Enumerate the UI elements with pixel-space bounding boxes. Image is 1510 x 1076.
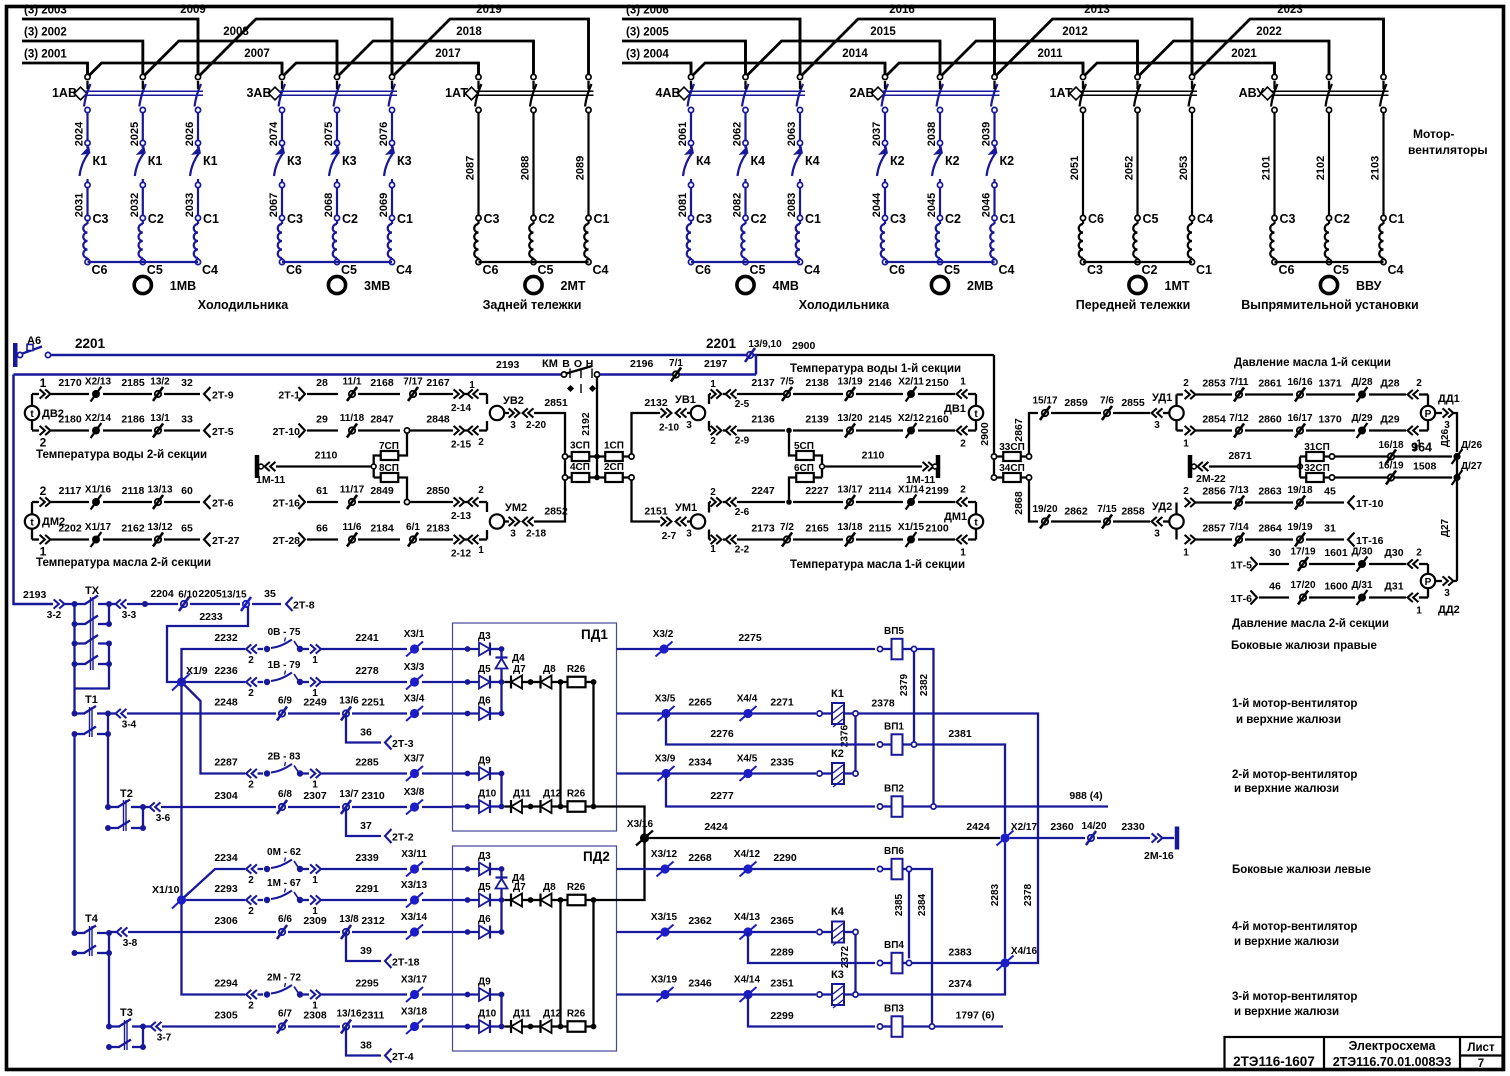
terminal — [476, 107, 481, 112]
svg-text:Д/31: Д/31 — [1351, 580, 1372, 591]
wire 2372 — [854, 935, 856, 992]
svg-text:2381: 2381 — [948, 728, 972, 740]
wire 2045 — [939, 188, 941, 216]
contact 7/6 — [1104, 410, 1110, 416]
svg-text:2081: 2081 — [677, 193, 689, 217]
svg-text:13/7: 13/7 — [339, 789, 359, 800]
wire — [799, 81, 801, 89]
svg-text:Д/29: Д/29 — [1351, 413, 1372, 424]
terminal — [586, 107, 591, 112]
bus 2007 — [88, 63, 283, 77]
svg-text:2: 2 — [710, 487, 716, 498]
svg-text:К1: К1 — [203, 154, 218, 168]
terminal — [1135, 107, 1140, 112]
diode Д3 — [465, 646, 471, 652]
svg-text:Д10: Д10 — [478, 1009, 497, 1020]
svg-text:4МВ: 4МВ — [773, 279, 799, 293]
wire 2276 — [666, 714, 875, 745]
svg-text:2023: 2023 — [1277, 4, 1303, 16]
svg-text:988 (4): 988 (4) — [1069, 790, 1102, 802]
svg-text:2311: 2311 — [362, 1010, 385, 1022]
wire 2162 — [103, 538, 152, 540]
svg-text:2М-16: 2М-16 — [1144, 850, 1174, 862]
wire 2136 — [737, 429, 785, 431]
svg-text:2: 2 — [248, 780, 254, 791]
wire 2293 — [186, 899, 245, 901]
diode Д4 — [500, 869, 502, 877]
wire 65 — [164, 538, 200, 540]
svg-text:К3: К3 — [342, 154, 357, 168]
svg-text:2379: 2379 — [899, 673, 910, 696]
svg-text:С1: С1 — [1389, 212, 1405, 226]
svg-text:0М - 62: 0М - 62 — [267, 847, 301, 858]
wire 2285 — [322, 772, 408, 774]
terminal — [140, 107, 145, 112]
panel ПД2 — [453, 846, 617, 1051]
wire 2083 — [799, 188, 801, 216]
svg-text:С6: С6 — [695, 263, 711, 277]
svg-text:2110: 2110 — [315, 450, 338, 462]
svg-text:3-7: 3-7 — [157, 1033, 172, 1044]
wire tap phase 3 — [197, 19, 200, 74]
wire 964 — [1334, 455, 1452, 457]
svg-text:1МТ: 1МТ — [1165, 279, 1190, 293]
junction Д/27 — [1453, 474, 1460, 481]
svg-text:3-6: 3-6 — [156, 813, 171, 824]
diode Д6 — [465, 929, 471, 935]
bus (3) 2006 — [622, 19, 800, 74]
svg-text:2: 2 — [1416, 378, 1422, 389]
svg-text:2160: 2160 — [925, 414, 949, 426]
wire 2132 — [632, 413, 661, 454]
wire tap phase 2 — [532, 41, 535, 74]
svg-text:С1: С1 — [594, 212, 610, 226]
svg-text:2068: 2068 — [323, 193, 335, 217]
wire 2232 — [182, 649, 246, 682]
wire — [282, 261, 392, 263]
svg-text:С4: С4 — [202, 263, 218, 277]
svg-text:3СП: 3СП — [570, 441, 590, 452]
contact 13/9,10 — [747, 352, 753, 358]
svg-text:С3: С3 — [484, 212, 500, 226]
svg-text:2022: 2022 — [1256, 26, 1282, 38]
svg-text:15/17: 15/17 — [1032, 396, 1057, 407]
wire 2074 — [281, 113, 283, 141]
stator winding — [532, 221, 534, 224]
svg-text:13/12: 13/12 — [147, 522, 172, 533]
stator winding — [884, 221, 886, 224]
connector 2-13 — [454, 497, 459, 506]
diode Д7 — [504, 899, 511, 901]
svg-text:2061: 2061 — [677, 122, 689, 146]
diode Д4 — [500, 649, 502, 657]
svg-text:2308: 2308 — [303, 1010, 327, 1022]
wire 2381 — [917, 745, 1005, 834]
wire 2275 — [617, 648, 876, 650]
contact Д/31 — [1358, 594, 1366, 602]
bus 2021 — [1083, 63, 1275, 77]
wire tap phase 1 — [1273, 63, 1276, 74]
contact 16/18 — [1388, 453, 1394, 459]
svg-text:Лист: Лист — [1467, 1042, 1495, 1054]
motor terminal С3 — [85, 215, 90, 220]
connector Х3/18 — [410, 1022, 419, 1031]
wire 2339 — [322, 868, 408, 870]
stator winding — [1082, 221, 1084, 224]
stator winding — [799, 221, 801, 224]
svg-text:3-й мотор-вентилятор: 3-й мотор-вентилятор — [1232, 991, 1357, 1003]
svg-text:6/9: 6/9 — [278, 696, 292, 707]
svg-text:2204: 2204 — [150, 588, 174, 600]
svg-text:2287: 2287 — [214, 757, 238, 769]
wire — [1369, 596, 1406, 598]
motor terminal С3 — [1272, 215, 1277, 220]
svg-text:2241: 2241 — [355, 632, 379, 644]
wire — [1082, 81, 1084, 89]
junction Д/26 — [1453, 453, 1460, 460]
wire 2088 — [532, 113, 534, 216]
wire 2168 — [358, 393, 400, 395]
svg-text:К4: К4 — [805, 154, 820, 168]
svg-text:вентиляторы: вентиляторы — [1408, 143, 1488, 157]
svg-text:С6: С6 — [1088, 212, 1104, 226]
wire — [477, 81, 479, 89]
svg-text:2024: 2024 — [74, 121, 86, 146]
svg-text:УВ2: УВ2 — [503, 395, 524, 407]
wire tap phase 1 — [281, 63, 284, 74]
svg-text:2248: 2248 — [214, 697, 238, 709]
wire tap phase 2 — [142, 41, 145, 74]
svg-text:2: 2 — [1416, 548, 1422, 559]
svg-text:19/20: 19/20 — [1032, 504, 1057, 515]
wire 2308 — [288, 1025, 340, 1027]
svg-text:С2: С2 — [1142, 263, 1158, 277]
wire 2053 — [1191, 113, 1193, 216]
svg-text:2900: 2900 — [792, 340, 816, 352]
diode Д9 — [465, 771, 471, 777]
svg-text:2184: 2184 — [370, 523, 394, 535]
terminal — [1381, 107, 1386, 112]
svg-text:К2: К2 — [831, 748, 844, 760]
svg-text:3: 3 — [1154, 529, 1160, 540]
svg-text:2855: 2855 — [1121, 397, 1145, 409]
svg-text:7: 7 — [1478, 1058, 1484, 1070]
svg-text:ДД2: ДД2 — [1438, 604, 1460, 616]
contactor К2 — [939, 146, 941, 148]
svg-text:4-й мотор-вентилятор: 4-й мотор-вентилятор — [1232, 921, 1357, 933]
svg-text:Д26: Д26 — [1440, 428, 1451, 447]
pressure relay ДД2 — [1427, 564, 1429, 574]
wire 2110 — [824, 465, 922, 467]
svg-text:2137: 2137 — [751, 377, 775, 389]
svg-text:2193: 2193 — [23, 589, 47, 601]
motor terminal С3 — [279, 215, 284, 220]
svg-text:7/5: 7/5 — [780, 377, 794, 388]
wire 31 — [1306, 538, 1344, 540]
svg-text:3: 3 — [686, 529, 692, 540]
svg-text:2852: 2852 — [544, 506, 568, 518]
wire 2870 — [1334, 476, 1452, 478]
connector Х4/13 — [743, 927, 752, 936]
contact Х1/17 — [92, 536, 100, 544]
terminal — [1326, 107, 1331, 112]
svg-text:32СП: 32СП — [1304, 463, 1330, 474]
svg-text:С1: С1 — [805, 212, 821, 226]
wire 2382 — [917, 649, 934, 804]
svg-text:1: 1 — [710, 379, 716, 390]
svg-text:С5: С5 — [1333, 263, 1349, 277]
motor terminal С1 — [586, 215, 591, 220]
wire — [88, 261, 199, 263]
svg-text:С6: С6 — [286, 263, 302, 277]
wire 2087 — [477, 113, 479, 216]
terminal — [743, 107, 748, 112]
resistor 3СП — [562, 454, 567, 459]
svg-text:2365: 2365 — [770, 915, 794, 927]
wire 2039 — [993, 113, 995, 141]
wire 2867 — [1029, 413, 1038, 454]
motor 3МВ — [328, 276, 345, 293]
svg-text:Д10: Д10 — [478, 789, 497, 800]
wire — [939, 81, 941, 89]
svg-text:13/15: 13/15 — [221, 590, 246, 601]
contact Х1/16 — [92, 498, 100, 506]
svg-text:С3: С3 — [287, 212, 303, 226]
svg-text:2100: 2100 — [925, 523, 949, 535]
junction Х3/16 — [640, 833, 649, 842]
wire — [1136, 81, 1138, 89]
svg-text:2295: 2295 — [355, 978, 379, 990]
svg-text:2862: 2862 — [1064, 506, 1088, 518]
svg-text:2382: 2382 — [919, 673, 930, 696]
terminal 2Т-8 — [286, 597, 293, 611]
switch 2В - 83 — [264, 770, 270, 776]
svg-text:Т1: Т1 — [85, 694, 98, 706]
svg-text:С5: С5 — [341, 263, 357, 277]
svg-text:Х3/14: Х3/14 — [401, 912, 428, 923]
contact 19/20 — [1042, 518, 1048, 524]
diode Д8 — [533, 899, 541, 901]
motor terminal С2 — [937, 215, 942, 220]
svg-text:2856: 2856 — [1202, 486, 1226, 498]
svg-text:Д7: Д7 — [513, 664, 526, 675]
bus 2022 — [1138, 41, 1330, 77]
terminal — [882, 107, 887, 112]
svg-text:С4: С4 — [1388, 263, 1404, 277]
svg-text:2853: 2853 — [1202, 378, 1226, 390]
terminal — [279, 107, 284, 112]
svg-text:14/20: 14/20 — [1081, 821, 1106, 832]
svg-text:Холодильника: Холодильника — [799, 298, 890, 312]
svg-text:36: 36 — [360, 727, 372, 739]
svg-text:1Т-5: 1Т-5 — [1230, 560, 1252, 572]
wire 2299 — [748, 995, 875, 1027]
diode Д12 — [533, 1025, 541, 1027]
svg-text:2069: 2069 — [378, 193, 390, 217]
switch КМ — [561, 372, 566, 377]
svg-text:Р: Р — [1425, 409, 1432, 420]
svg-text:2-7: 2-7 — [662, 531, 677, 542]
contactor К1 — [142, 146, 144, 148]
svg-text:2038: 2038 — [926, 122, 938, 146]
svg-text:2053: 2053 — [1178, 156, 1190, 180]
svg-text:Д4: Д4 — [512, 653, 525, 664]
svg-text:2Т-1: 2Т-1 — [278, 390, 300, 402]
terminal — [1189, 107, 1194, 112]
connector Х3/1 — [410, 644, 419, 653]
svg-text:УД2: УД2 — [1152, 501, 1172, 513]
svg-text:Х1/10: Х1/10 — [152, 884, 180, 896]
svg-text:13/6: 13/6 — [339, 696, 359, 707]
svg-text:Выпрямительной установки: Выпрямительной установки — [1241, 298, 1418, 312]
svg-text:1370: 1370 — [1318, 414, 1342, 426]
svg-text:13/1: 13/1 — [150, 413, 170, 424]
svg-text:2016: 2016 — [889, 4, 915, 16]
svg-text:2103: 2103 — [1370, 156, 1382, 180]
connector 2-15 — [454, 426, 459, 435]
svg-text:Д12: Д12 — [543, 789, 562, 800]
svg-text:2019: 2019 — [476, 4, 502, 16]
wire 2900 — [753, 355, 756, 375]
terminal — [992, 107, 997, 112]
bus 2018 — [337, 41, 534, 77]
svg-text:2: 2 — [248, 1001, 254, 1012]
svg-text:2851: 2851 — [544, 397, 568, 409]
svg-text:13/17: 13/17 — [837, 485, 862, 496]
svg-text:С3: С3 — [93, 212, 109, 226]
svg-text:2850: 2850 — [426, 485, 450, 497]
title block — [1225, 1037, 1503, 1070]
contact 7/14 — [1236, 536, 1242, 542]
wire 2115 — [856, 538, 903, 540]
svg-text:2: 2 — [478, 437, 484, 448]
diode Д5 — [465, 679, 471, 685]
bus (3) 2002 — [22, 41, 143, 74]
svg-text:1: 1 — [312, 875, 318, 886]
contact Д/30 — [1358, 560, 1366, 568]
svg-text:ДМ1: ДМ1 — [944, 511, 967, 523]
wire — [142, 81, 144, 89]
wire 2193 — [14, 602, 54, 605]
diode Д11 — [504, 805, 511, 807]
wire 2160 — [918, 429, 955, 431]
svg-text:11/1: 11/1 — [343, 377, 362, 388]
svg-text:С3: С3 — [1280, 212, 1296, 226]
svg-text:ПД2: ПД2 — [583, 849, 610, 864]
svg-text:2017: 2017 — [435, 48, 461, 60]
wire 2227 — [793, 501, 843, 503]
svg-text:С6: С6 — [1279, 263, 1295, 277]
motor terminal С3 — [476, 215, 481, 220]
wire tap phase 3 — [799, 19, 802, 74]
svg-text:2372: 2372 — [840, 945, 851, 968]
svg-text:2МТ: 2МТ — [561, 279, 586, 293]
wire — [1083, 261, 1192, 263]
wire 2184 — [358, 538, 400, 540]
pressure relay ДД1 — [1427, 395, 1429, 406]
svg-text:2861: 2861 — [1258, 378, 1282, 390]
terminal 2Т-5 — [204, 424, 211, 438]
contact 7/15 — [1104, 518, 1110, 524]
svg-text:2АВ: 2АВ — [849, 86, 874, 100]
svg-text:3: 3 — [686, 420, 692, 431]
svg-text:1: 1 — [40, 376, 47, 390]
contact 16/16 — [1297, 391, 1303, 397]
svg-text:2044: 2044 — [871, 192, 883, 217]
svg-text:2277: 2277 — [710, 790, 734, 802]
wire 2046 — [993, 188, 995, 216]
diode Д10 — [465, 1024, 471, 1030]
svg-text:6/8: 6/8 — [278, 789, 292, 800]
svg-text:2201: 2201 — [706, 336, 737, 351]
svg-text:7/15: 7/15 — [1097, 504, 1117, 515]
svg-text:7/11: 7/11 — [1230, 377, 1249, 388]
wire 2062 — [744, 113, 746, 141]
wire 2234 — [185, 869, 246, 897]
wire to Х3/16 — [594, 807, 645, 839]
wire 2102 — [1328, 113, 1330, 216]
svg-text:2063: 2063 — [786, 122, 798, 146]
svg-text:С4: С4 — [999, 263, 1015, 277]
wire — [559, 682, 561, 807]
svg-text:Давление масла 2-й секции: Давление масла 2-й секции — [1232, 618, 1389, 630]
svg-text:Х2/17: Х2/17 — [1011, 822, 1038, 833]
wire 2852 — [504, 520, 509, 522]
contact 11/17 — [349, 499, 355, 505]
svg-text:ВП1: ВП1 — [884, 722, 904, 733]
wire 2859 — [1051, 412, 1101, 414]
svg-text:2Т-3: 2Т-3 — [392, 738, 414, 750]
wire 2424 — [649, 837, 1000, 839]
wire 2251 — [352, 712, 407, 714]
svg-text:и верхние жалюзи: и верхние жалюзи — [1236, 714, 1341, 726]
svg-text:38: 38 — [360, 1040, 372, 1052]
svg-text:2227: 2227 — [805, 485, 829, 497]
wire 35 — [252, 603, 281, 605]
wire — [336, 81, 338, 89]
svg-text:2249: 2249 — [303, 697, 327, 709]
svg-text:13/20: 13/20 — [837, 413, 862, 424]
wire 2193 rail — [14, 373, 562, 376]
svg-text:С5: С5 — [1143, 212, 1159, 226]
svg-text:3-2: 3-2 — [47, 610, 62, 621]
motor terminal С1 — [389, 215, 394, 220]
relay УВ2 — [486, 394, 488, 404]
relay УД1 — [1169, 406, 1183, 420]
terminal 1Т-16 — [1348, 533, 1355, 547]
svg-text:Х3/9: Х3/9 — [655, 754, 676, 765]
svg-text:К3: К3 — [831, 969, 844, 981]
svg-text:(3) 2005: (3) 2005 — [626, 27, 669, 39]
wire 2075 — [336, 113, 338, 141]
wire 39 to 2Т-18 — [346, 932, 381, 961]
connector 2-2 — [711, 535, 716, 544]
svg-text:1371: 1371 — [1318, 378, 1342, 390]
diode Д3 — [465, 866, 471, 872]
svg-text:3-8: 3-8 — [123, 938, 138, 949]
wire 2858 — [1113, 520, 1150, 522]
wire 2856 — [1196, 501, 1232, 503]
svg-text:2Т-8: 2Т-8 — [293, 600, 315, 612]
wire 2278 — [322, 681, 408, 683]
svg-text:ВВУ: ВВУ — [1356, 279, 1382, 293]
svg-text:К1: К1 — [148, 154, 163, 168]
svg-text:Д12: Д12 — [543, 1009, 562, 1020]
stator winding — [993, 221, 995, 224]
stator winding — [1191, 221, 1193, 224]
svg-text:2Т-6: 2Т-6 — [212, 498, 234, 510]
wire — [885, 261, 995, 263]
